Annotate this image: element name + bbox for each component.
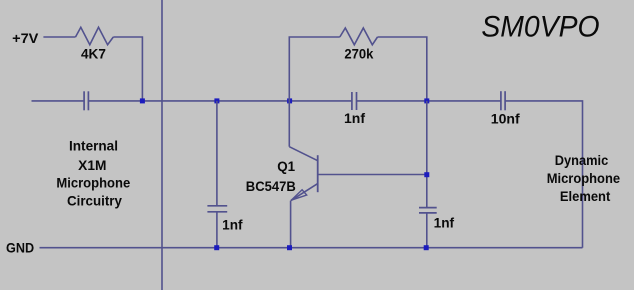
wire capacitor 1nf shunt left to ground (216, 212, 218, 248)
svg-text:Internal: Internal (69, 138, 118, 153)
svg-text:1nf: 1nf (434, 216, 455, 231)
capacitor 1nf shunt right (419, 208, 437, 213)
node C junction (424, 98, 429, 103)
transistor Q1 emitter arrowhead (291, 190, 307, 200)
svg-text:SM0VPO: SM0VPO (481, 10, 599, 43)
transistor Q1 base bar (317, 155, 319, 192)
svg-text:1nf: 1nf (222, 218, 243, 233)
wire +7V to resistor 4K7 (43, 36, 75, 38)
capacitor 1nf series (352, 92, 357, 110)
svg-text:Element: Element (560, 189, 611, 204)
ground junction right (424, 245, 429, 250)
svg-text:10nf: 10nf (491, 112, 520, 127)
ground junction emitter (287, 245, 292, 250)
svg-text:BC547B: BC547B (246, 179, 296, 194)
svg-text:Circuitry: Circuitry (67, 194, 122, 209)
transistor Q1 emitter lead (291, 184, 318, 201)
svg-text:X1M: X1M (78, 158, 106, 173)
node A junction (140, 98, 145, 103)
label Internal X1M Microphone Circuitry (56, 138, 130, 208)
node D junction base (424, 172, 429, 177)
svg-text:Dynamic: Dynamic (555, 153, 609, 168)
capacitor 1nf shunt left (207, 206, 227, 212)
svg-text:Microphone: Microphone (547, 171, 621, 186)
resistor 4K7 (76, 27, 114, 44)
wire 270k left vertical (289, 37, 340, 101)
resistor 270k (340, 28, 378, 45)
node B junction (214, 98, 219, 103)
wire node B down to capacitor 1nf shunt left (216, 101, 218, 206)
svg-text:+7V: +7V (12, 31, 38, 46)
svg-text:270k: 270k (344, 47, 373, 62)
wire base to node D (318, 174, 427, 176)
node collector junction (287, 98, 292, 103)
wire capacitor 1nf shunt right to ground (426, 213, 428, 248)
wire 270k right to node C (378, 37, 427, 101)
wire node C down through base node to capacitor (426, 101, 428, 208)
wire input capacitor to series capacitor 1nf (88, 100, 352, 102)
svg-text:Microphone: Microphone (56, 176, 130, 191)
wire emitter to ground (290, 201, 292, 248)
label Dynamic Microphone Element (547, 153, 621, 204)
wire resistor 4K7 to node A (113, 37, 142, 101)
capacitor input coupling (84, 91, 88, 110)
wire series capacitor to node C (357, 100, 501, 102)
wire signal input left (32, 100, 85, 102)
transistor Q1 collector lead (289, 147, 317, 161)
svg-text:Q1: Q1 (277, 159, 295, 174)
svg-text:1nf: 1nf (344, 111, 366, 126)
wire 10nf to dynamic microphone element (505, 101, 582, 248)
boundary line internal microphone circuitry (161, 0, 163, 290)
wire ground rail (40, 247, 583, 249)
ground junction left (214, 245, 219, 250)
svg-text:GND: GND (6, 241, 34, 256)
svg-text:4K7: 4K7 (81, 47, 106, 62)
wire collector vertical (288, 101, 290, 147)
capacitor 10nf (501, 91, 505, 110)
